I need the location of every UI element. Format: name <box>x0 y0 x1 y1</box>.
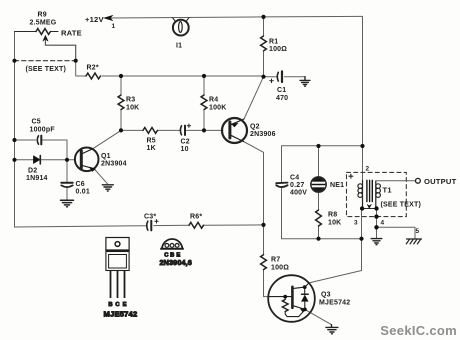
lamp I1 <box>173 18 190 36</box>
svg-text:C5: C5 <box>32 119 41 126</box>
wire Q1 emitter <box>94 169 108 184</box>
svg-text:10K: 10K <box>328 220 341 227</box>
resistor R7 <box>261 255 267 270</box>
svg-text:R6*: R6* <box>190 214 202 221</box>
wire pin4 to pin 5 chassis ground <box>377 227 416 239</box>
wire C6 stem <box>66 160 68 200</box>
transistor Q3 <box>268 275 315 322</box>
transformer T1 dashed box <box>347 172 407 216</box>
resistor R8 <box>316 210 322 226</box>
ground below C6 <box>61 200 74 206</box>
svg-text:R2*: R2* <box>87 65 99 72</box>
node Q3 base <box>283 295 287 299</box>
package TO-92 2N3904,6 <box>162 239 183 249</box>
ground below Q3 emitter <box>326 325 338 334</box>
svg-text:1000pF: 1000pF <box>30 127 56 134</box>
wire C4 branch <box>282 146 363 239</box>
potentiometer R9 <box>36 29 76 61</box>
svg-text:5: 5 <box>416 228 420 235</box>
capacitor C4 <box>276 183 287 187</box>
power arrow +12V <box>104 15 113 20</box>
node bottom rail / Q2 column <box>261 223 265 227</box>
resistor R1 <box>261 36 267 51</box>
capacitor C6 <box>61 183 72 187</box>
svg-text:D2: D2 <box>28 168 37 175</box>
svg-text:R9: R9 <box>38 12 47 19</box>
node R3 top <box>119 74 123 78</box>
svg-text:OUTPUT: OUTPUT <box>424 177 457 186</box>
svg-text:C2: C2 <box>181 139 190 146</box>
svg-text:C1: C1 <box>277 87 286 94</box>
wire mid rail y76 <box>76 61 264 77</box>
wire C5 branch <box>15 140 68 160</box>
capacitor C5 <box>37 136 41 145</box>
wire transformer pin 3 column to Q3 collector <box>309 209 362 283</box>
svg-text:C: C <box>115 302 120 308</box>
wire NE1 / R8 column <box>318 146 320 239</box>
package TO-220 body <box>106 252 129 271</box>
node T1 primary bottom <box>360 206 364 210</box>
node T1 secondary bottom <box>374 206 378 210</box>
svg-text:1N914: 1N914 <box>26 175 48 182</box>
neon lamp NE1 <box>311 177 325 191</box>
wire transformer bottom link <box>362 208 376 210</box>
node pin4 on box edge <box>374 214 378 218</box>
transformer T1 secondary winding <box>376 181 381 209</box>
svg-text:2N3904,6: 2N3904,6 <box>160 258 192 267</box>
svg-text:Q2: Q2 <box>250 124 260 131</box>
svg-text:R4: R4 <box>209 97 218 104</box>
svg-text:100Ω: 100Ω <box>269 46 287 53</box>
svg-text:(SEE TEXT): (SEE TEXT) <box>381 202 422 209</box>
wire D2 branch <box>15 159 76 161</box>
svg-text:Q3: Q3 <box>321 292 331 299</box>
wire C1 branch <box>264 76 306 78</box>
node C5/D2 join <box>65 158 69 162</box>
wire R4 column <box>203 76 205 130</box>
PACKAGES <box>104 238 192 319</box>
node R3 bottom <box>119 128 123 132</box>
wire left column <box>14 32 16 228</box>
node NE1 bottom <box>316 237 320 241</box>
svg-text:SeekIC.com: SeekIC.com <box>380 323 457 338</box>
ground below pin 4 <box>371 239 382 245</box>
transformer T1 primary winding <box>358 181 363 209</box>
node dashed-right <box>74 59 78 63</box>
svg-text:MJE5742: MJE5742 <box>319 300 350 307</box>
wire R1 column <box>263 17 265 77</box>
svg-text:2.5MEG: 2.5MEG <box>30 20 57 27</box>
transformer T1 plus mark <box>349 174 353 178</box>
svg-text:0.01: 0.01 <box>76 189 90 196</box>
ground below C1 <box>300 77 310 87</box>
svg-text:2: 2 <box>366 166 370 173</box>
svg-text:400V: 400V <box>290 190 307 197</box>
svg-text:2N3906: 2N3906 <box>250 131 276 138</box>
node C5 left <box>12 138 16 142</box>
svg-text:B: B <box>108 302 112 308</box>
node R1 bottom <box>261 75 265 79</box>
wire pin4 ground stem <box>376 227 378 238</box>
capacitor C2 <box>180 124 190 135</box>
svg-text:Q1: Q1 <box>101 153 111 160</box>
svg-text:R5: R5 <box>147 138 156 145</box>
svg-text:+12V: +12V <box>85 15 104 24</box>
transformer T1 core <box>367 180 372 201</box>
svg-text:R1: R1 <box>269 39 278 46</box>
wire Q1 collector diagonal <box>93 130 121 148</box>
svg-text:E: E <box>123 302 127 308</box>
svg-text:1K: 1K <box>147 145 156 152</box>
svg-text:3: 3 <box>354 220 358 227</box>
svg-text:R7: R7 <box>271 257 280 264</box>
wire right vertical to transformer pin 2 <box>362 16 364 180</box>
svg-text:100Ω: 100Ω <box>271 265 289 272</box>
wire transformer pin 4 column <box>376 209 378 228</box>
node D2 left <box>12 158 16 162</box>
wire R3 column <box>120 76 122 130</box>
wire Q2 collector diagonal and column to Q3 <box>244 142 269 297</box>
wire transformer secondary to OUTPUT <box>376 180 415 182</box>
wire bottom-left rail y225.5 <box>15 225 264 227</box>
node R4 bottom <box>202 128 206 132</box>
package TO-220 hole <box>115 242 120 247</box>
svg-text:1: 1 <box>112 23 116 30</box>
svg-text:T1: T1 <box>383 186 393 195</box>
node NE1 top <box>316 144 320 148</box>
wire R9 leads <box>15 31 59 33</box>
dashed wire (SEE TEXT) <box>15 60 76 62</box>
node dashed-left <box>12 59 16 63</box>
resistor R5 <box>143 127 158 133</box>
svg-text:4: 4 <box>381 220 385 227</box>
transistor Q1 <box>75 148 99 172</box>
svg-text:MJE5742: MJE5742 <box>104 310 138 319</box>
svg-text:C6: C6 <box>76 181 85 188</box>
svg-text:C3*: C3* <box>144 214 156 221</box>
capacitor C1 <box>270 71 282 82</box>
node R4 top <box>202 74 206 78</box>
resistor R3 <box>118 95 124 110</box>
svg-text:2N3904: 2N3904 <box>101 161 127 168</box>
resistor R6* <box>189 222 204 228</box>
capacitor C3* <box>147 220 158 231</box>
ground below Q1 emitter <box>102 185 113 191</box>
package TO-220 legs <box>111 271 125 299</box>
resistor R2* <box>86 73 101 79</box>
svg-text:10K: 10K <box>126 105 139 112</box>
resistor R4 <box>201 95 207 110</box>
svg-text:0.27: 0.27 <box>290 182 304 189</box>
node pin4 lower <box>374 225 378 229</box>
svg-text:10: 10 <box>181 146 189 153</box>
wire top +12V rail <box>108 16 363 18</box>
OUTPUT terminal <box>416 178 421 183</box>
svg-text:100K: 100K <box>209 105 227 112</box>
node pin3 rail <box>359 237 363 241</box>
package TO-220 MJE5742 tab <box>106 238 129 251</box>
svg-text:NE1: NE1 <box>330 182 344 189</box>
svg-text:470: 470 <box>276 95 288 102</box>
node R1 top <box>261 15 265 19</box>
diode D2 <box>33 156 40 164</box>
node Q3 diode top <box>303 285 307 289</box>
svg-text:(SEE TEXT): (SEE TEXT) <box>26 66 67 73</box>
svg-text:R3: R3 <box>126 97 135 104</box>
wire Q3 emitter to ground <box>305 309 332 324</box>
svg-text:RATE: RATE <box>61 29 82 38</box>
node Q3 emitter <box>303 308 307 312</box>
svg-text:I1: I1 <box>176 43 182 50</box>
node T1 column mid <box>360 144 364 148</box>
wire low rail y130 <box>121 129 223 131</box>
wire Q2 emitter diagonal <box>244 77 264 119</box>
svg-text:C4: C4 <box>290 175 299 182</box>
svg-text:R8: R8 <box>328 212 337 219</box>
transformer bottom arrow mark <box>367 204 371 208</box>
transistor Q2 <box>222 118 247 143</box>
chassis ground pin 5 <box>406 239 421 244</box>
